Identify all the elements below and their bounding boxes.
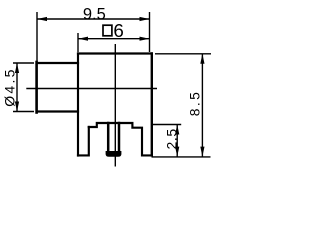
svg-text:8.5: 8.5 [188, 90, 203, 116]
svg-text:Ø4.5: Ø4.5 [1, 67, 17, 107]
svg-text:9.5: 9.5 [83, 6, 106, 24]
svg-text:2.5: 2.5 [163, 128, 179, 149]
svg-text:6: 6 [113, 20, 123, 41]
